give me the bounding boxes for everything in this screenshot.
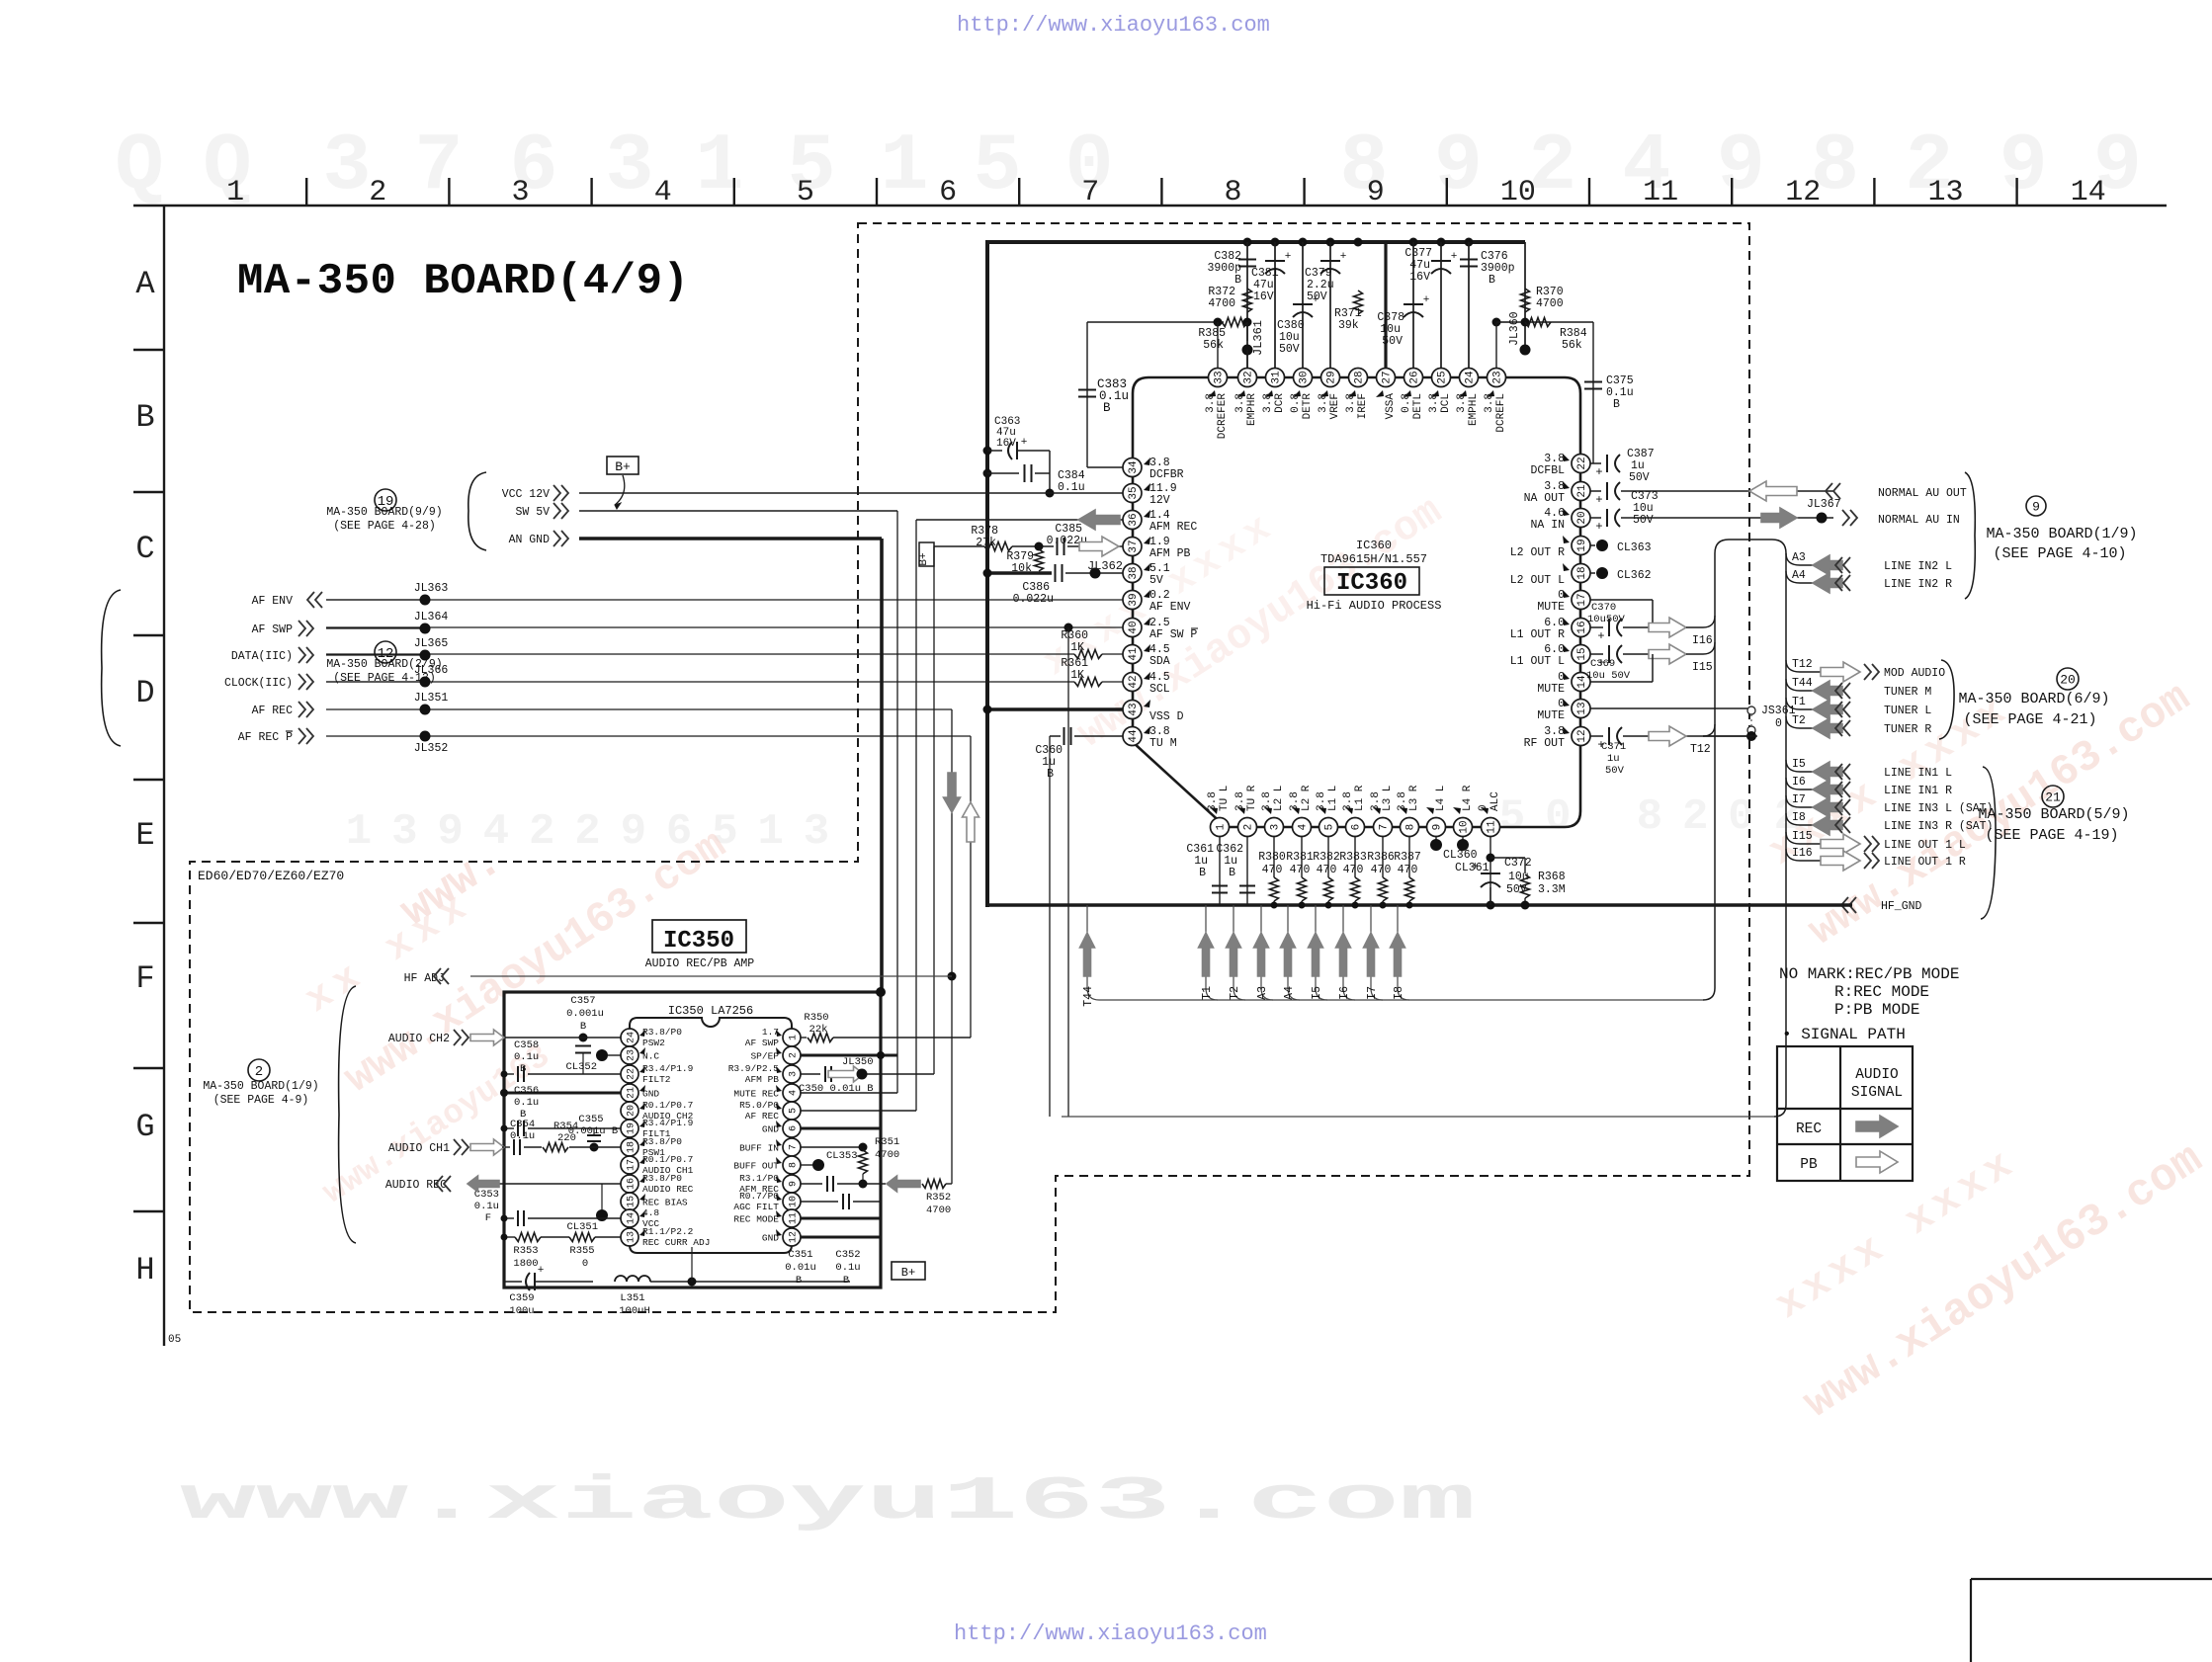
IC360 pin 15 L1 OUT L [1510, 643, 1590, 668]
label ED60/ED70/EZ60/EZ70 [198, 869, 344, 883]
IC350 pin 3 AFM PB [728, 1063, 801, 1085]
svg-text:AF REC: AF REC [252, 705, 294, 717]
svg-text:20: 20 [1576, 511, 1588, 524]
svg-text:VSSA: VSSA [1385, 393, 1397, 420]
svg-text:+: + [1021, 437, 1028, 449]
svg-text:GND: GND [642, 1089, 659, 1100]
svg-text:9: 9 [1367, 176, 1385, 209]
svg-text:DCL: DCL [1440, 393, 1452, 413]
svg-text:12: 12 [789, 1231, 800, 1243]
svg-text:C358: C358 [514, 1039, 539, 1051]
svg-text:R3.4/P1.9: R3.4/P1.9 [642, 1118, 694, 1128]
border ruler line [133, 205, 2167, 207]
svg-text:LINE OUT 1 L: LINE OUT 1 L [1884, 839, 1966, 852]
svg-text:AUDIO CH1: AUDIO CH1 [388, 1142, 450, 1155]
svg-text:L2 L: L2 L [1273, 786, 1285, 811]
IC350 pin 20 AUDIO CH2 [621, 1100, 694, 1122]
svg-text:13: 13 [627, 1231, 638, 1243]
IC360 pin 5 L1 L [1316, 786, 1339, 837]
connector row LINE IN3 R (SAT) [1786, 811, 1993, 835]
capacitor C357 [566, 995, 604, 1074]
svg-text:2: 2 [255, 1064, 263, 1080]
svg-text:MUTE: MUTE [1537, 683, 1565, 696]
IC350 pin 8 BUFF OUT [733, 1156, 801, 1174]
wire C375 drop [1592, 322, 1594, 463]
svg-text:2: 2 [529, 807, 554, 857]
IC360 pin 16 L1 OUT R [1510, 617, 1590, 641]
svg-text:3.8: 3.8 [1345, 393, 1357, 413]
connector row TUNER L [1786, 696, 1931, 719]
svg-text:0.1u: 0.1u [1058, 481, 1085, 494]
wire stub collector 1 [1099, 999, 1703, 1001]
label B+ rotated [918, 542, 934, 566]
svg-text:B: B [1229, 867, 1235, 879]
jumper CL360 [1430, 837, 1478, 863]
brace group 19 [468, 472, 486, 550]
svg-text:4700: 4700 [926, 1205, 951, 1216]
IC360 pin 37 AFM PB [1123, 536, 1191, 560]
resistor R382 [1313, 837, 1340, 909]
jumper JL352 [326, 731, 971, 756]
svg-text:NA OUT: NA OUT [1524, 492, 1566, 505]
jumper JL364 [326, 611, 448, 634]
svg-text:4.8: 4.8 [642, 1207, 659, 1218]
svg-text:10u 50V: 10u 50V [1586, 670, 1631, 682]
stub T44 [1080, 905, 1100, 1007]
svg-text:1u: 1u [1607, 753, 1620, 765]
svg-text:(SEE PAGE 4-21): (SEE PAGE 4-21) [1963, 711, 2096, 728]
svg-text:6: 6 [939, 176, 957, 209]
svg-text:DCR: DCR [1274, 393, 1286, 413]
svg-text:C371: C371 [1601, 741, 1626, 753]
svg-text:P:PB MODE: P:PB MODE [1834, 1001, 1919, 1019]
wire stub collector 2 [1062, 1116, 1774, 1118]
wire AUDIO REC row [499, 1183, 640, 1185]
svg-text:MA-350 BOARD(1/9): MA-350 BOARD(1/9) [203, 1080, 318, 1093]
svg-text:B: B [1199, 867, 1206, 879]
dashed board outline [190, 223, 1749, 1312]
IC360 pin 3 L2 L [1261, 786, 1285, 837]
IC360 pin 27 VSSA [1376, 369, 1397, 420]
svg-text:T12: T12 [1690, 743, 1711, 756]
svg-text:50V: 50V [1307, 291, 1327, 303]
svg-text:3.8: 3.8 [1261, 791, 1273, 811]
svg-text:3: 3 [322, 121, 371, 212]
IC360 pin 9 L4 L [1426, 786, 1447, 837]
svg-text:470: 470 [1317, 864, 1337, 876]
resistor R380 [1258, 837, 1286, 909]
IC350 boxed label [645, 920, 755, 970]
IC360 pin 38 5V [1123, 562, 1170, 587]
svg-text:REC BIAS: REC BIAS [642, 1198, 688, 1208]
wire VSS D row [983, 706, 1124, 714]
svg-text:0.1u: 0.1u [514, 1097, 539, 1109]
capacitor C349 pin10 [801, 1194, 881, 1209]
jumper CL362 [1590, 567, 1652, 582]
wire drop AF REC P [970, 736, 972, 1038]
svg-text:R386: R386 [1367, 851, 1395, 864]
wire drop SW5V [896, 511, 898, 1093]
svg-text:A4: A4 [1283, 986, 1296, 1000]
svg-text:NO MARK:REC/PB MODE: NO MARK:REC/PB MODE [1779, 965, 1959, 983]
svg-text:B: B [843, 1275, 849, 1287]
svg-text:56k: 56k [1562, 339, 1582, 352]
svg-text:VREF: VREF [1329, 393, 1341, 419]
svg-text:+: + [1595, 465, 1602, 479]
wire drop AFM PB [933, 546, 935, 1074]
svg-text:1.7: 1.7 [762, 1027, 779, 1038]
svg-text:R351: R351 [875, 1136, 899, 1148]
svg-text:13: 13 [1576, 702, 1588, 714]
IC350 pin 19 FILT1 [621, 1118, 694, 1139]
bottom right corner box [1971, 1579, 2212, 1662]
stub I5 [1309, 905, 1328, 1000]
svg-text:5V: 5V [1149, 574, 1163, 587]
svg-text:38: 38 [1128, 566, 1140, 579]
svg-text:IC360: IC360 [1336, 570, 1407, 597]
svg-text:3.8: 3.8 [1289, 791, 1301, 811]
IC360 pin 35 12V [1123, 482, 1177, 507]
svg-text:L2 OUT R: L2 OUT R [1510, 546, 1565, 559]
resistor R372 [1208, 286, 1251, 312]
svg-text:0.1u: 0.1u [514, 1051, 539, 1063]
wire SDA row [326, 653, 1074, 655]
svg-text:TU L: TU L [1219, 786, 1231, 811]
capacitor C363 [983, 416, 1051, 459]
svg-text:D: D [135, 675, 154, 711]
arrow T12 [1649, 724, 1757, 756]
capacitor C361 [1186, 837, 1228, 906]
wire bundle loop [1703, 540, 1786, 1117]
svg-text:3: 3 [1270, 824, 1282, 831]
svg-text:16: 16 [627, 1178, 638, 1190]
IC350 pin 1 AF SWP [745, 1027, 801, 1048]
brace group 2 [339, 986, 356, 1243]
svg-text:26: 26 [1409, 371, 1421, 383]
IC350 pin 17 AUDIO CH1 [621, 1154, 694, 1176]
svg-text:31: 31 [1271, 371, 1283, 384]
svg-text:I15: I15 [1692, 661, 1713, 674]
svg-text:14: 14 [2071, 176, 2106, 209]
svg-text:R3.8/P0: R3.8/P0 [642, 1136, 682, 1147]
wire SP/EP row [801, 1051, 897, 1059]
svg-text:JL364: JL364 [414, 611, 449, 623]
svg-text:17: 17 [627, 1159, 638, 1171]
wire AF REC row [801, 1110, 916, 1112]
svg-text:5: 5 [797, 176, 814, 209]
svg-text:AF SWP: AF SWP [745, 1038, 780, 1048]
svg-text:AF REC: AF REC [745, 1111, 780, 1122]
svg-text:CL362: CL362 [1617, 569, 1652, 582]
svg-text:JL361: JL361 [1251, 320, 1265, 356]
brace board 1/9 [1965, 472, 1975, 599]
stub A3 [1254, 905, 1274, 1000]
IC360 pin 44 TU M [1123, 725, 1177, 750]
wire drop AFM REC [915, 520, 917, 1111]
svg-text:1: 1 [880, 121, 928, 212]
jumper JL365 [326, 637, 448, 661]
svg-text:AF SWP: AF SWP [252, 623, 294, 636]
svg-text:C: C [135, 531, 154, 567]
svg-text:MUTE: MUTE [1537, 709, 1565, 722]
svg-text:16V: 16V [996, 438, 1016, 450]
IC350 pin 4 MUTE REC [733, 1084, 801, 1102]
svg-text:3.8: 3.8 [1234, 393, 1246, 413]
IC360 pin 11 ALC [1478, 791, 1501, 837]
svg-text:22: 22 [627, 1068, 638, 1080]
svg-text:CL353: CL353 [826, 1150, 858, 1162]
svg-text:19: 19 [627, 1122, 638, 1134]
IC360 pin 20 NA IN [1530, 507, 1590, 532]
wire HF ADJ row [470, 975, 952, 977]
svg-text:R3.8/P0: R3.8/P0 [642, 1027, 682, 1038]
svg-text:C370: C370 [1591, 602, 1616, 614]
svg-text:7: 7 [789, 1144, 800, 1150]
IC350 chip outline [630, 1018, 792, 1253]
IC350 pin 6 GND [762, 1120, 801, 1137]
svg-text:B+: B+ [901, 1266, 915, 1280]
svg-text:24: 24 [627, 1032, 638, 1043]
watermark big bottom text [180, 1466, 1476, 1537]
wire pin34 [1087, 466, 1124, 468]
resistor R384 [1525, 318, 1587, 353]
svg-text:LINE IN3 L (SAT): LINE IN3 L (SAT) [1884, 802, 1993, 815]
label B+ in box [892, 1262, 925, 1280]
resistor R379 [1006, 549, 1043, 575]
wire AN GND drop [880, 539, 884, 992]
capacitor C384 [983, 451, 1085, 498]
svg-text:0.8: 0.8 [1401, 393, 1412, 413]
svg-text:3900p: 3900p [1481, 262, 1515, 275]
svg-text:I16: I16 [1692, 634, 1713, 647]
capacitor C360 [1035, 727, 1123, 1117]
svg-text:I7: I7 [1792, 793, 1806, 806]
arrow JL362 [1079, 537, 1123, 573]
IC360 pin 14 MUTE [1537, 671, 1590, 696]
svg-text:C352: C352 [835, 1249, 860, 1261]
svg-text:R387: R387 [1394, 851, 1421, 864]
svg-text:7: 7 [1081, 176, 1099, 209]
svg-text:B: B [1613, 398, 1620, 411]
svg-text:CLOCK(IIC): CLOCK(IIC) [224, 677, 293, 690]
svg-text:Q: Q [115, 121, 163, 212]
svg-text:5: 5 [789, 1108, 800, 1114]
IC360 pin 32 EMPHR [1234, 369, 1258, 427]
svg-text:JL366: JL366 [414, 664, 449, 677]
svg-text:2: 2 [1682, 792, 1708, 842]
jumper JS361 [1747, 705, 1796, 734]
svg-text:1: 1 [1216, 823, 1228, 830]
IC360 pin 13 MUTE [1537, 698, 1590, 722]
svg-text:9: 9 [789, 1181, 800, 1187]
svg-text:NORMAL AU IN: NORMAL AU IN [1878, 514, 1960, 527]
resistor R354 [543, 1121, 621, 1152]
watermark faint digits middle [346, 792, 1800, 857]
svg-text:3.8: 3.8 [1428, 393, 1440, 413]
jumper CL351 [566, 1184, 608, 1233]
IC350 pin 12 GND [762, 1228, 801, 1246]
svg-text:50V: 50V [1633, 514, 1654, 527]
wire bias row left [1087, 318, 1252, 327]
svg-text:AFM PB: AFM PB [745, 1074, 780, 1085]
svg-text:3.8: 3.8 [1234, 791, 1246, 811]
svg-text:AUDIO CH2: AUDIO CH2 [388, 1033, 450, 1045]
wire HF-GND bus [987, 903, 1852, 907]
IC360 inner labels [1307, 539, 1442, 613]
svg-text:DCFBL: DCFBL [1530, 464, 1565, 477]
svg-text:I6: I6 [1338, 986, 1351, 1000]
svg-text:MA-350 BOARD(9/9): MA-350 BOARD(9/9) [326, 506, 442, 519]
svg-text:B+: B+ [918, 552, 930, 565]
terminal CLOCK(IIC) [224, 674, 313, 690]
IC360 pin 41 SDA [1123, 643, 1170, 668]
svg-text:ED60/ED70/EZ60/EZ70: ED60/ED70/EZ60/EZ70 [198, 869, 344, 883]
svg-text:6: 6 [789, 1125, 800, 1131]
svg-text:3.8: 3.8 [1484, 393, 1495, 413]
svg-text:L3 L: L3 L [1382, 786, 1394, 811]
svg-text:28: 28 [1354, 371, 1366, 383]
svg-text:I6: I6 [1792, 776, 1806, 789]
resistor R360 [1061, 629, 1123, 659]
svg-text:30: 30 [1299, 371, 1311, 383]
svg-text:41: 41 [1128, 647, 1140, 661]
svg-text:0: 0 [582, 1258, 588, 1270]
svg-text:1: 1 [757, 807, 783, 857]
wire AUDIO CH1 row [504, 1146, 510, 1148]
svg-text:I5: I5 [1792, 758, 1806, 771]
IC360 pin 42 SCL [1123, 671, 1170, 696]
IC360 pin 10 L4 R [1453, 785, 1474, 836]
svg-text:+: + [1472, 860, 1479, 873]
svg-text:9: 9 [1434, 121, 1483, 212]
title MA-350 BOARD(4/9) [237, 257, 689, 306]
svg-text:12: 12 [1785, 176, 1821, 209]
svg-text:C357: C357 [570, 995, 595, 1007]
capacitor C377 [1404, 247, 1457, 284]
arrow I15 [1649, 642, 1715, 674]
svg-text:8: 8 [789, 1162, 800, 1168]
svg-text:LINE IN2 L: LINE IN2 L [1884, 560, 1952, 573]
capacitor C371 [1590, 727, 1757, 777]
row letters [135, 266, 155, 1288]
svg-text:AF SW P: AF SW P [1149, 628, 1197, 641]
connector row TUNER M [1786, 677, 1931, 701]
svg-text:AFM REC: AFM REC [1149, 521, 1197, 534]
watermark pink diagonal 3 [1752, 600, 2199, 956]
svg-text:32: 32 [1243, 371, 1255, 383]
svg-text:TU R: TU R [1246, 785, 1258, 811]
arrow NORMAL AU IN gray [1761, 508, 1797, 528]
svg-text:A4: A4 [1792, 569, 1806, 582]
svg-text:R355: R355 [569, 1245, 594, 1257]
svg-text:TUNER R: TUNER R [1884, 723, 1931, 736]
svg-text:IREF: IREF [1357, 393, 1369, 419]
svg-text:F: F [485, 1212, 491, 1224]
resistor R370 [1521, 286, 1564, 312]
IC350 pin 18 PSW1 [621, 1136, 682, 1158]
svg-text:2: 2 [1243, 824, 1255, 831]
capacitor C350 [799, 1066, 934, 1095]
svg-text:22k: 22k [809, 1024, 828, 1036]
arrow gray down mid [944, 773, 961, 812]
svg-text:(SEE PAGE 4-10): (SEE PAGE 4-10) [1993, 545, 2126, 562]
capacitor C383 [1078, 322, 1129, 467]
terminal SW 5V [515, 503, 568, 519]
svg-text:T2: T2 [1792, 714, 1806, 727]
svg-text:R0.1/P0.7: R0.1/P0.7 [642, 1100, 693, 1111]
svg-text:3.8: 3.8 [1318, 393, 1329, 413]
page number 05 [168, 1334, 181, 1346]
IC350 pin 23 N.C [621, 1046, 659, 1064]
capacitor C379 [1305, 251, 1346, 303]
capacitor C376 [1460, 250, 1515, 287]
svg-text:16V: 16V [1253, 291, 1274, 303]
svg-text:JL350: JL350 [842, 1056, 874, 1068]
jumper JL351 [326, 692, 952, 715]
IC350 pin 16 AUDIO REC [621, 1173, 694, 1195]
stub I6 [1336, 905, 1356, 1000]
svg-text:IC360: IC360 [1356, 539, 1392, 552]
resistor R355 [541, 1233, 621, 1271]
capacitor C355 [568, 1114, 618, 1152]
svg-text:R3.8/P0: R3.8/P0 [642, 1173, 682, 1184]
svg-text:L1 R: L1 R [1354, 785, 1366, 811]
capacitor C378 [1377, 294, 1429, 348]
svg-text:EMPHL: EMPHL [1468, 393, 1480, 426]
svg-text:+: + [1451, 251, 1458, 263]
jumper CL363 [1590, 540, 1652, 554]
resistor R353 [501, 1233, 542, 1271]
svg-text:L1 OUT R: L1 OUT R [1510, 628, 1565, 641]
svg-text:• SIGNAL PATH: • SIGNAL PATH [1782, 1026, 1906, 1043]
svg-text:0: 0 [1775, 717, 1782, 730]
terminal NORMAL AU OUT [1826, 483, 1967, 500]
svg-text:+: + [1285, 251, 1292, 263]
resistor R385 [1198, 318, 1247, 353]
jumper CL353 [801, 1150, 858, 1171]
wire AUDIO CH2 row [504, 1037, 621, 1039]
resistor R351 [859, 1136, 900, 1184]
svg-text:8: 8 [1224, 176, 1241, 209]
IC350 pin 7 BUFF IN [739, 1138, 801, 1156]
connector row LINE IN1 L [1786, 758, 1952, 782]
svg-text:R383: R383 [1339, 851, 1367, 864]
svg-text:44: 44 [1128, 729, 1140, 743]
brace board 5/9 [1981, 767, 1996, 919]
svg-text:25: 25 [1437, 371, 1449, 383]
IC360 pin 25 DCL [1428, 369, 1452, 413]
IC360 pin 12 RF OUT [1524, 725, 1590, 750]
wire GND6 row [801, 1127, 881, 1130]
wire GND21 row [500, 1089, 621, 1097]
svg-text:R5.0/P0: R5.0/P0 [739, 1100, 779, 1111]
svg-text:R354: R354 [553, 1121, 578, 1132]
arrow open up mid [963, 802, 979, 842]
arrow R352 gray [887, 1176, 920, 1192]
svg-text:T12: T12 [1792, 658, 1813, 671]
IC350 pin 10 AGC FILT [733, 1191, 801, 1212]
legend mode text [1779, 965, 1959, 1019]
svg-text:C372: C372 [1504, 857, 1532, 870]
wire bias row right [1492, 318, 1594, 327]
svg-text:L2 OUT L: L2 OUT L [1510, 574, 1565, 587]
svg-text:JL367: JL367 [1807, 498, 1841, 511]
svg-text:L1 OUT L: L1 OUT L [1510, 655, 1565, 668]
svg-text:34: 34 [1128, 460, 1140, 474]
svg-text:R:REC MODE: R:REC MODE [1834, 983, 1929, 1001]
svg-text:R381: R381 [1286, 851, 1314, 864]
stub A4 [1281, 905, 1301, 1000]
